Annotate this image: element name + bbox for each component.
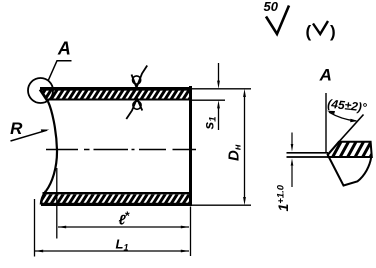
svg-text:): ) bbox=[330, 22, 336, 41]
svg-text:R: R bbox=[10, 119, 23, 138]
svg-text:A: A bbox=[57, 39, 71, 59]
svg-text:A: A bbox=[319, 66, 332, 85]
svg-text:*: * bbox=[125, 209, 130, 223]
svg-text:50: 50 bbox=[264, 0, 279, 14]
svg-text:(: ( bbox=[306, 22, 312, 41]
